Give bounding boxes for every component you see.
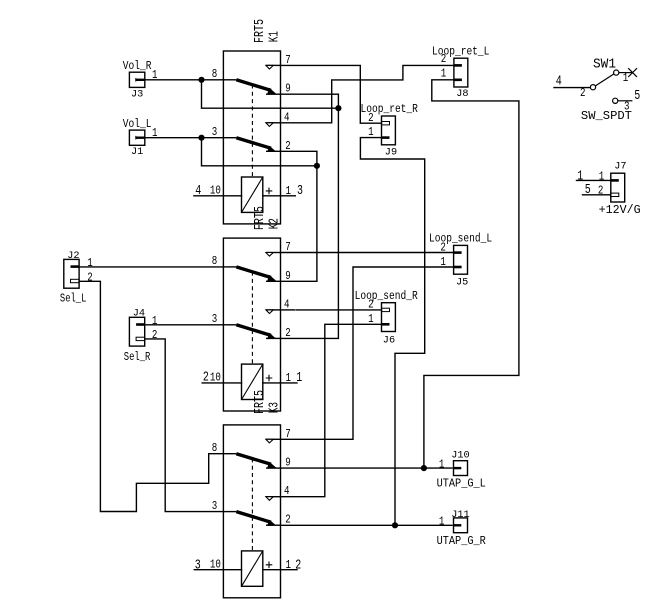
svg-text:J2: J2 <box>67 250 79 262</box>
svg-text:1: 1 <box>152 314 158 328</box>
wire K2.7 to J5.2 <box>281 252 454 254</box>
svg-text:1: 1 <box>623 71 629 85</box>
junction Vol_L/K1.2 net <box>314 163 320 169</box>
svg-text:J9: J9 <box>385 146 397 158</box>
wire K3.9 to J10.1 <box>281 467 453 469</box>
svg-text:SW1: SW1 <box>593 58 616 73</box>
relay K2 contacts+coil <box>223 238 280 411</box>
connector J5 (Loop_send_L) <box>454 245 468 274</box>
svg-text:Loop_send_R: Loop_send_R <box>355 289 418 303</box>
svg-text:J7: J7 <box>614 161 626 173</box>
svg-text:Vol_L: Vol_L <box>123 117 152 131</box>
svg-text:1: 1 <box>441 67 447 81</box>
wire K3.2 to J11.1 <box>281 524 453 526</box>
svg-text:J10: J10 <box>451 450 470 462</box>
wire at J7 pin 1 <box>577 179 611 181</box>
svg-text:J11: J11 <box>451 509 470 521</box>
svg-text:J1: J1 <box>131 146 143 158</box>
svg-text:8: 8 <box>212 254 218 268</box>
svg-text:Sel_R: Sel_R <box>124 350 151 364</box>
connector J7 (+12V/G) <box>611 173 625 202</box>
svg-text:1: 1 <box>599 169 605 183</box>
relay K3 contacts+coil <box>223 425 280 598</box>
relay K1 contacts+coil <box>223 51 280 224</box>
wire J4.1 to K2.3 <box>145 324 224 326</box>
wire J2.2 to K3.8 <box>79 281 223 511</box>
svg-text:8: 8 <box>212 67 218 81</box>
svg-text:FRT5: FRT5 <box>252 390 268 414</box>
svg-text:FRT5: FRT5 <box>252 19 268 43</box>
wire J6.1 to K3.4 <box>281 324 382 496</box>
svg-text:2: 2 <box>203 370 209 386</box>
wire J4.2 to K3.3 <box>145 339 224 512</box>
svg-text:4: 4 <box>556 74 562 90</box>
svg-text:3: 3 <box>297 183 303 199</box>
svg-text:Sel_L: Sel_L <box>60 292 87 306</box>
connector J6 (Loop_send_R) <box>382 303 396 332</box>
svg-text:1: 1 <box>439 457 445 471</box>
svg-text:UTAP_G_L: UTAP_G_L <box>437 477 486 491</box>
wire node Vol_L branch <box>202 138 317 166</box>
switch SW1 SPDT <box>590 70 632 103</box>
svg-text:2: 2 <box>295 558 301 574</box>
junction Vol_R/K1.9 net <box>335 105 341 111</box>
svg-text:3: 3 <box>212 125 218 139</box>
connector J1 (Vol_L) <box>129 130 144 145</box>
svg-text:3: 3 <box>195 558 201 574</box>
svg-text:Loop_send_L: Loop_send_L <box>429 232 492 246</box>
wire K1.2 to K2.9 <box>281 151 317 281</box>
connector J8 (Loop_ret_L) <box>454 58 468 87</box>
wire K1.9 to K2.2 <box>281 94 339 338</box>
wire node Vol_R branch <box>202 80 339 108</box>
junction at Vol_L <box>198 135 204 141</box>
junction on J10 wire <box>421 465 427 471</box>
svg-text:K3: K3 <box>267 402 283 413</box>
K1 coil pin 10 wire <box>194 195 242 197</box>
svg-text:2: 2 <box>87 270 93 284</box>
connector J4 (Sel_R) <box>129 317 144 346</box>
K2 coil pin 10 wire <box>202 382 241 384</box>
svg-text:1: 1 <box>296 370 302 386</box>
svg-text:4: 4 <box>195 183 201 199</box>
svg-text:J3: J3 <box>131 88 143 100</box>
no-connect X at SW1 pin 1 <box>628 68 637 77</box>
svg-text:2: 2 <box>152 328 158 342</box>
wire K1.7 to J9.2 <box>281 65 382 123</box>
K2 pin 4 stub <box>281 309 295 311</box>
connector J3 (Vol_R) <box>129 72 144 87</box>
wire to J6.2 <box>297 309 382 311</box>
connector J11 (UTAP_G_R) <box>454 518 468 533</box>
K3 coil pin 10 wire <box>194 569 241 571</box>
K3 coil pin 1 wire <box>263 569 297 571</box>
wire at SW1 pin 4 <box>554 87 590 89</box>
svg-text:3: 3 <box>212 312 218 326</box>
wire at J7 pin 2 <box>583 194 611 196</box>
svg-text:J4: J4 <box>133 307 145 319</box>
junction at Vol_R <box>198 77 204 83</box>
svg-text:3: 3 <box>624 99 630 113</box>
connector J9 (Loop_ret_R) <box>382 116 396 145</box>
svg-text:5: 5 <box>634 88 640 104</box>
K2 coil pin 1 wire <box>263 382 297 384</box>
svg-text:K1: K1 <box>267 31 283 42</box>
wire J3.1 to K1.8 <box>145 79 224 81</box>
svg-text:K2: K2 <box>267 218 283 229</box>
wire J1.1 to K1.3 <box>145 137 224 139</box>
wire J5.1 to K3.7 <box>281 267 454 439</box>
junction on J11 wire <box>392 522 398 528</box>
svg-text:J6: J6 <box>383 334 395 346</box>
svg-text:1: 1 <box>577 169 583 185</box>
svg-text:FRT5: FRT5 <box>252 206 268 230</box>
svg-text:J5: J5 <box>456 277 468 289</box>
K1 coil pin 1 wire <box>263 195 296 197</box>
svg-text:+12V/G: +12V/G <box>599 203 641 217</box>
svg-text:UTAP_G_R: UTAP_G_R <box>437 534 486 548</box>
wire J2.1 to K2.8 <box>79 266 223 268</box>
connector J10 (UTAP_G_L) <box>454 461 468 476</box>
wire K1.4 to J8.2 <box>281 65 454 122</box>
wire J8.1 to J10 net <box>424 80 519 468</box>
svg-text:Vol_R: Vol_R <box>123 59 152 73</box>
svg-text:8: 8 <box>212 441 218 455</box>
wire J9.1 to J11 net <box>360 138 424 526</box>
svg-text:2: 2 <box>441 52 447 66</box>
connector J2 (Sel_L) <box>64 259 79 288</box>
svg-text:1: 1 <box>87 256 93 270</box>
svg-text:1: 1 <box>439 515 445 529</box>
svg-text:2: 2 <box>580 86 586 100</box>
svg-text:3: 3 <box>212 499 218 513</box>
svg-text:J8: J8 <box>456 88 468 100</box>
